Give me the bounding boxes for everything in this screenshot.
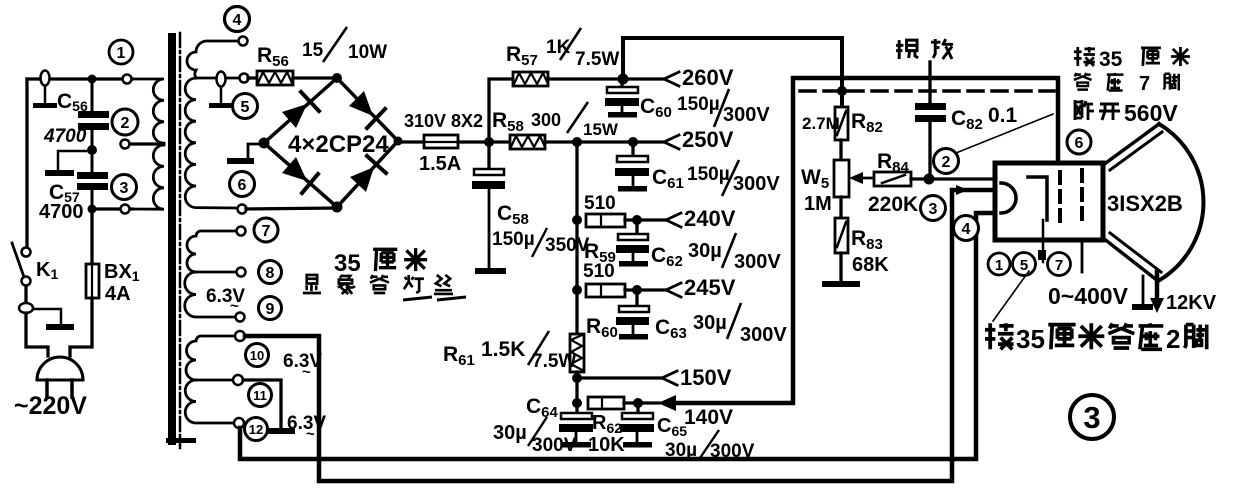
svg-text:4700: 4700 [43,126,87,147]
arrow 140V solid [658,395,676,411]
svg-text:10: 10 [250,348,264,363]
svg-text:150µ: 150µ [687,164,730,185]
capacitor C64 [575,403,578,414]
bridge D1-D4 diamond [264,78,398,207]
text 断开560V [1075,100,1094,120]
label (3) right [921,196,946,221]
wire top bus [623,38,842,107]
svg-text:4A: 4A [105,283,131,305]
wire R61 to 150V node [575,372,578,403]
svg-text:5: 5 [241,99,250,116]
svg-text:300V: 300V [733,173,780,195]
wire terminal2 [130,142,160,145]
svg-text:245V: 245V [684,275,736,300]
svg-text:30µ: 30µ [493,422,527,444]
node I junction [632,215,642,225]
resistor R58 [510,135,545,149]
capacitor C65 [636,403,639,414]
terminal 11 circle [233,375,243,385]
svg-text:300V: 300V [723,104,770,126]
svg-text:0.1: 0.1 [988,104,1018,127]
wire rail down from node E [575,142,578,334]
CRT funnel top [1103,124,1159,165]
label (6) [230,172,255,197]
svg-text:4700: 4700 [39,201,84,223]
label (3) [112,175,137,200]
label (3) big page number [1070,395,1114,439]
label (9) [259,297,282,320]
capacitor C61 [631,142,634,157]
capacitor C63 [635,290,638,307]
svg-text:7.5W: 7.5W [575,49,619,70]
winding P2 primary lower [130,144,164,209]
capacitor C82 [928,62,931,104]
svg-text:300V: 300V [532,435,577,456]
R57 branch up [489,79,513,142]
arrow on cathode wire [956,185,968,195]
svg-text:35: 35 [1099,48,1123,71]
node F junction [628,137,638,147]
wire term5 to R56 [248,76,257,79]
svg-text:1.5A: 1.5A [419,153,461,175]
switch K1 [22,248,31,257]
diode D1 (left-top arm) [282,104,307,128]
svg-text:3: 3 [929,201,938,218]
svg-text:4: 4 [962,221,971,238]
svg-text:9: 9 [266,301,275,318]
svg-text:10W: 10W [348,42,387,63]
ground 12KV area [1142,276,1145,305]
svg-text:1: 1 [117,45,126,62]
node D junction [484,137,494,147]
svg-text:3ISX2B: 3ISX2B [1107,191,1183,216]
resistor R59 510 [586,214,625,227]
label (7) pin [1048,253,1071,276]
svg-text:300V: 300V [740,324,787,346]
winding S2 (7-8-9) [187,231,237,272]
diode D2 (left-bottom arm) [282,157,307,181]
label (4) right [954,216,979,241]
terminal 8 circle [237,268,246,277]
wire R58 to rail [545,140,665,143]
chassis stub at J2 [33,309,61,325]
arrow 240V [666,213,681,227]
svg-text:~220V: ~220V [14,392,87,420]
capacitor C58 [487,142,490,170]
svg-text:220K: 220K [868,193,918,216]
svg-text:11: 11 [253,388,267,403]
transformer T1 core [168,33,176,445]
svg-text:8: 8 [266,265,275,282]
svg-text:68K: 68K [852,254,889,276]
svg-text:150µ: 150µ [677,94,720,115]
svg-text:5: 5 [1020,257,1028,274]
capacitor C56 [91,79,94,111]
svg-text:~: ~ [306,426,315,443]
label (10) [246,344,269,367]
wire bus from 12 (y458) [240,213,997,459]
svg-text:7.5W: 7.5W [532,351,576,372]
terminal 2 circle [121,140,130,149]
terminal 1 circle [123,75,132,84]
plug P1 [37,357,83,380]
resistor R61 vertical [570,334,584,372]
node J junction [572,285,582,295]
terminal 5 circle [240,74,249,83]
svg-text:15W: 15W [583,120,619,139]
terminal 12 circle [234,418,244,428]
svg-text:0~400V: 0~400V [1048,283,1129,309]
text 接35厘米管座2脚 (bottom) [985,323,1014,349]
winding S1 (4-5-6) [187,41,238,78]
wiper arrow [858,177,873,180]
node A junction [88,75,97,84]
dashed net 560V [800,89,1054,93]
node L junction [572,373,582,383]
dashed grid lines [1058,172,1062,224]
terminal 9 circle [236,313,245,322]
winding S3 (10-11-12) [186,336,235,380]
svg-text:3: 3 [1083,400,1100,435]
underline 灯丝 [403,297,466,300]
chassis under J1 [44,86,47,104]
fuse BX1 [86,264,99,298]
potentiometer W5 [834,160,849,197]
svg-text:30µ: 30µ [693,312,727,334]
capacitor C62 [635,220,638,235]
arrow 150V [662,371,677,385]
wire R56 to bridge [293,76,337,79]
label (5) pin [1013,253,1036,276]
wire W5 to R83 [839,197,842,218]
svg-text:250V: 250V [682,127,734,152]
label (6) right [1067,130,1091,154]
svg-text:7: 7 [1139,73,1150,95]
node B junction [87,145,97,155]
node N junction [633,398,643,408]
svg-text:140V: 140V [684,406,733,429]
diode D4 (bottom-right arm) [350,167,374,192]
svg-text:300V: 300V [710,441,755,462]
resistor R60 510 [586,284,625,297]
ground R83 [839,253,842,282]
terminal 4 circle [239,37,248,46]
svg-text:35: 35 [1016,324,1045,354]
label (12) [245,418,268,441]
resistor R83 [835,218,848,253]
resistor R57 [513,72,548,86]
svg-text:6.3V: 6.3V [206,286,245,307]
svg-text:7: 7 [1055,257,1063,274]
node Q junction [924,174,935,185]
svg-text:35: 35 [334,250,361,277]
connector J1 oval [41,71,50,86]
resistor R84 [874,172,911,186]
svg-text:6: 6 [1075,135,1084,152]
svg-text:240V: 240V [684,206,736,231]
wire fuse to R58 [458,140,510,143]
svg-text:12: 12 [249,422,263,437]
text 显象管灯丝 [303,275,321,293]
text 管座7脚 [1074,73,1092,90]
svg-text:10K: 10K [588,434,625,456]
wire bridge to fuse [398,140,424,143]
svg-text:4×2CP24: 4×2CP24 [288,131,389,158]
grid bracket [1028,177,1047,220]
pin numbers in circles [117,12,1101,437]
wire to plug left [26,313,48,356]
CRT neck box [995,163,1103,240]
label (2) right [934,149,959,174]
arrow 260V [664,72,679,86]
wire 11 to ground [243,380,281,429]
wire left vertical to switch [25,79,28,247]
resistor R56 [257,71,293,85]
svg-text:510: 510 [584,193,616,214]
svg-text:30µ: 30µ [665,440,697,461]
label (7) [254,218,278,242]
CRT funnel bottom [1103,238,1158,281]
svg-text:350V: 350V [545,235,590,256]
svg-text:6: 6 [238,177,247,194]
svg-text:2: 2 [1166,324,1180,354]
svg-text:1: 1 [995,257,1003,274]
node K junction [632,285,642,295]
fuse BX2 [424,135,458,148]
CRT bell arc [1158,124,1203,281]
cathode arc [1001,183,1016,213]
svg-text:510: 510 [583,261,615,282]
svg-text:150V: 150V [680,365,732,390]
svg-text:560V: 560V [1124,100,1178,126]
terminal 6 circle [238,205,247,214]
node H junction [572,215,582,225]
label (8) [259,261,282,284]
label (1) [109,40,133,64]
resistor R82 [835,107,848,140]
wire chassis stub [58,151,92,171]
wire BX1 drop [90,209,93,264]
wire bus from 10 (y480) [245,190,995,481]
diode D3 (top-right arm) [349,91,373,116]
svg-text:~: ~ [230,298,239,315]
text 视放 [896,40,918,59]
svg-text:~: ~ [302,364,311,381]
terminal 10 circle [235,331,245,341]
svg-text:15: 15 [302,40,324,61]
svg-text:310V 8X2: 310V 8X2 [404,111,483,131]
wire top-left horizontal [27,77,132,80]
wire R57 to C60 node [548,77,665,80]
svg-text:2.7M: 2.7M [802,114,840,133]
arrow 245V [666,283,681,297]
node P junction on dashed [837,86,847,96]
ground at bridge left [248,144,264,159]
wire term6 to bridge [246,208,337,209]
svg-text:1.5K: 1.5K [481,338,525,361]
svg-text:3: 3 [120,180,129,197]
svg-text:7: 7 [262,223,271,240]
svg-text:30µ: 30µ [688,240,722,262]
wire terminal3 [92,207,132,210]
svg-text:12KV: 12KV [1166,292,1217,314]
node G junction [618,74,629,85]
svg-text:260V: 260V [682,65,734,90]
svg-text:1M: 1M [804,193,832,215]
resistor R62 [588,397,624,409]
terminal 3 circle [121,205,130,214]
svg-text:300V: 300V [734,251,781,273]
connector J2 oval [19,303,33,313]
wire R84 to node Q [911,177,999,180]
arrow 250V [664,135,679,149]
terminal 7 circle [237,227,246,236]
text 接35厘米 (top right) [1074,47,1095,66]
svg-text:300: 300 [531,110,561,130]
wire 140V to box [672,78,1058,403]
label (2) [112,109,138,135]
svg-text:2: 2 [121,115,130,132]
label (4) [225,7,250,32]
label (11) [249,384,272,407]
connector J3 oval [217,72,226,87]
svg-text:2: 2 [942,154,951,171]
grid wire down to pad [1042,220,1045,262]
wire 0-400V [1081,240,1084,272]
capacitor C60 [620,84,623,88]
arrow 12KV [1155,272,1160,300]
label (1) pin [988,253,1010,275]
svg-text:150µ: 150µ [492,229,535,250]
node M junction [572,398,582,408]
node C junction [88,205,97,214]
label (5) [233,94,258,119]
wire R82 to W5 [839,140,842,160]
node E junction [572,137,582,147]
leader to 560V text [956,114,1053,153]
leader to pin2 text [993,271,1029,321]
svg-text:4: 4 [233,12,242,29]
capacitor C57 [91,150,94,172]
winding P1 primary upper [132,79,164,143]
